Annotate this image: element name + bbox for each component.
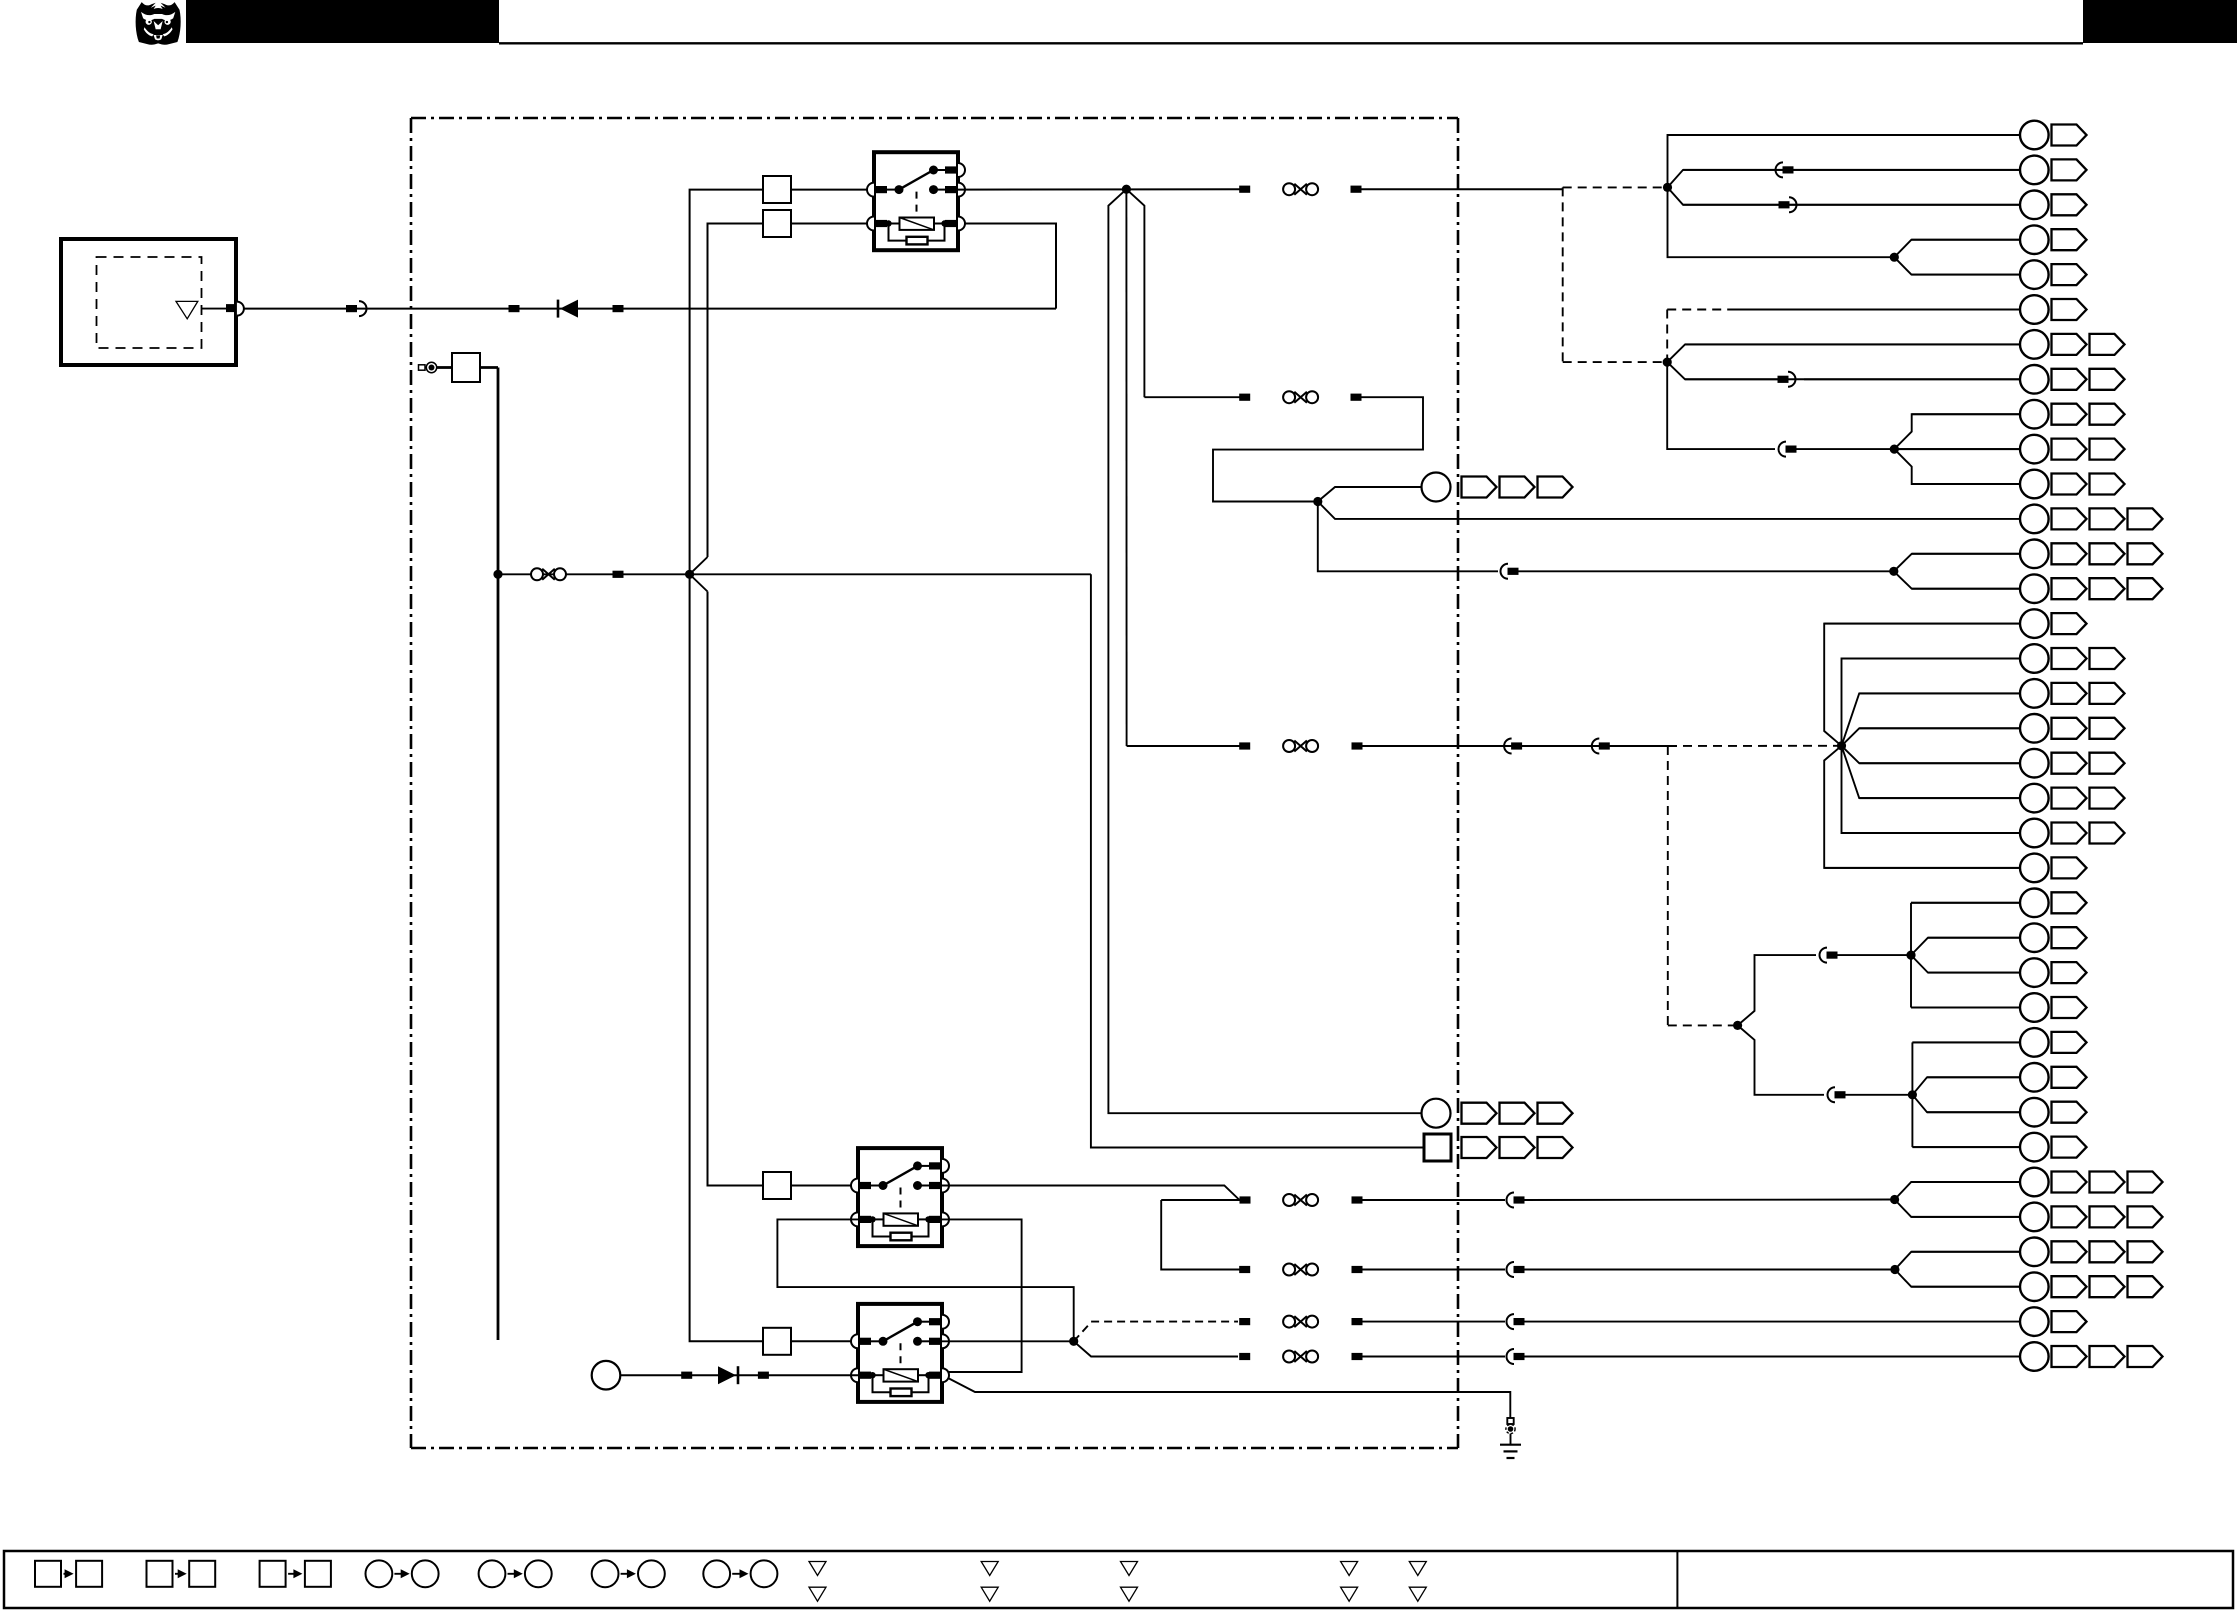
legend circle pair 3 — [592, 1560, 665, 1587]
connector row n=24 — [1928, 958, 2087, 987]
fan G — [1908, 1042, 2020, 1147]
fuse F4 — [763, 1328, 791, 1355]
module border right (dash-dot) — [1457, 118, 1460, 1448]
connector row n=10 — [1912, 470, 2125, 499]
relay K1 — [867, 152, 965, 250]
row7 connector — [1778, 372, 1796, 387]
component box (ignition switch) — [61, 239, 236, 365]
connector half-circle+square — [1504, 739, 1522, 754]
legend triangle pair 2 — [981, 1562, 998, 1602]
legend circle pair 4 — [703, 1560, 777, 1587]
row1 connector — [1776, 162, 1794, 177]
wire: apex to v-1126 (to splice row y746) — [1125, 189, 1127, 746]
row A to fan H — [1240, 1194, 1506, 1206]
wire: row y397 — [1144, 396, 1244, 398]
connector row n=33 — [1911, 1272, 2162, 1301]
connector row n=31 — [1911, 1203, 2162, 1232]
legend box — [4, 1551, 2233, 1608]
thick vertical x=498 — [497, 368, 500, 1341]
wire y571 to fan E — [1518, 570, 1894, 572]
connector square — [1239, 186, 1250, 193]
diode D1 (cathode left) — [558, 300, 578, 318]
connector row n=12 — [1912, 540, 2163, 569]
diode D2 (cathode right) — [718, 1366, 738, 1384]
connector square — [1351, 186, 1362, 193]
legend divider — [1676, 1551, 1678, 1608]
dashed wire to star fan — [1668, 745, 1842, 747]
wire: jog down to fan G feed — [1738, 1025, 1824, 1094]
row D to right — [1239, 1351, 1505, 1363]
dashed branch to row C — [1074, 1322, 1238, 1342]
connector row n=30 — [1911, 1168, 2162, 1197]
connector row n=17 — [1859, 714, 2124, 743]
junction apex dot — [1122, 185, 1131, 194]
wire: fan to connector row (circle) — [1318, 487, 1422, 502]
legend circle pair 1 — [366, 1560, 439, 1587]
wire: box to corner (power feed) — [243, 308, 1056, 310]
wire: vertical v2 top to fuse F2 — [708, 224, 764, 558]
relay K2 — [851, 1148, 949, 1246]
module border left (dash-dot) — [410, 118, 413, 1448]
connector row n=11 — [2020, 505, 2163, 534]
connector row n=6 — [1685, 330, 2125, 359]
connector square on feed — [509, 305, 520, 312]
fan E — [1889, 554, 2020, 589]
wire: F1 to relay K1 — [791, 189, 874, 191]
wire: vertical v1 top to fuse F1 — [690, 190, 763, 575]
wire y574 left segment — [498, 573, 1091, 575]
connector half-circle+square y571 — [1501, 564, 1519, 579]
wire: K2 coil loop to K3 junction — [777, 1219, 1073, 1341]
connector row n=25 — [1911, 993, 2087, 1022]
row2 connector — [1779, 197, 1797, 212]
connector half-circle+square — [1820, 948, 1838, 963]
module border top (dash-dot) — [411, 117, 1458, 120]
connector row: square+3 chevrons y1147 — [1424, 1134, 1573, 1161]
connector row n=34 — [2020, 1307, 2087, 1336]
small box with terminal — [419, 353, 499, 382]
wire: M to diode D2 — [620, 1374, 858, 1376]
connector row n=8 — [1912, 400, 2125, 429]
star fan — [1824, 624, 2020, 868]
connector half-circle+square — [1507, 1262, 1525, 1277]
wire: v1 down to fuse F4 — [690, 574, 763, 1341]
wire: fan down to y571 row — [1318, 502, 1498, 572]
fuse F1 — [763, 176, 791, 203]
splice (bowtie) — [1283, 183, 1318, 195]
fan D — [1663, 344, 2020, 449]
connector row n=9 — [1894, 435, 2124, 464]
connector half-circle+square — [1507, 1193, 1525, 1208]
fan C — [1890, 414, 2020, 484]
wire: feed corner up to relay K1 — [958, 224, 1056, 309]
connector row n=2 — [1683, 191, 2087, 220]
v2 jog through junction — [690, 557, 708, 592]
wire: F4 to relay K3 — [791, 1340, 858, 1342]
connector row n=26 — [1912, 1028, 2086, 1057]
connector row n=5 — [1730, 295, 2087, 324]
wire: jog up to fan F feed — [1738, 955, 1816, 1025]
connector row n=32 — [1911, 1238, 2162, 1267]
wire: F2 to relay K1 coil — [791, 223, 874, 225]
connector row n=35 — [2020, 1342, 2163, 1371]
dashed wire to lower fans — [1668, 1024, 1738, 1026]
wire: K3 output to junction — [942, 1340, 1074, 1342]
junction dot K3 out — [1069, 1337, 1078, 1346]
legend square pair 2 — [147, 1561, 216, 1587]
connector square — [681, 1372, 692, 1379]
dashed link fanB-fanD — [1563, 187, 1668, 362]
row B to fan I — [1239, 1264, 1505, 1276]
connector (inline) on feed — [346, 301, 367, 316]
Jaguar logo (growler badge) — [136, 2, 181, 45]
wire row C to row 34 — [1524, 1321, 2020, 1323]
connector row n=13 — [1912, 574, 2163, 603]
wire to connectors — [1362, 745, 1668, 747]
wire: v2 down to fuse F3 — [708, 592, 764, 1186]
inner dashed box — [97, 257, 202, 348]
legend circle pair 2 — [479, 1560, 552, 1587]
connector row n=16 — [1859, 679, 2124, 708]
circle M (sensor) — [592, 1361, 621, 1390]
dashed branch to row5 — [1667, 310, 1730, 363]
legend triangle pair 5 — [1409, 1562, 1426, 1602]
fan A — [1890, 240, 2020, 275]
connector row n=28 — [1927, 1098, 2087, 1127]
module border bottom (dash-dot) — [411, 1447, 1458, 1450]
fuse F2 — [763, 210, 791, 237]
wire: K2 coil-right down to K3 coil-right — [942, 1219, 1022, 1372]
connector square on feed 2 — [613, 305, 624, 312]
connector square — [1351, 394, 1362, 401]
wire: to fan F — [1837, 954, 1911, 956]
junction dot on x=498 — [493, 570, 502, 579]
wire: y574 corner down to square row — [1091, 574, 1424, 1147]
legend triangle pair 4 — [1341, 1562, 1358, 1602]
connector row n=3 — [1911, 225, 2086, 254]
connector row n=14 — [1824, 609, 2086, 638]
connector row n=20 — [1842, 819, 2125, 848]
connector row n=1 — [1683, 156, 2087, 185]
row C to right — [1239, 1316, 1505, 1328]
fan H — [1890, 1182, 2020, 1217]
wire row D to row 35 — [1524, 1356, 2020, 1358]
fanC input connector — [1779, 442, 1797, 457]
fan B — [1663, 135, 2020, 257]
header rule line — [499, 42, 2083, 44]
wire: K1 output to splice — [958, 188, 1245, 190]
connector square — [1352, 742, 1363, 749]
wire: to dashed section — [1361, 188, 1563, 190]
fuse F3 — [763, 1172, 791, 1199]
wire: K3 coil to ground run — [948, 1378, 1510, 1418]
connector square on y574 — [613, 571, 624, 578]
fan junction dot (mid) — [1313, 497, 1322, 506]
connector row: circle+3 chevrons y1113 — [1422, 1099, 1573, 1128]
ground symbol — [1500, 1418, 1521, 1458]
dashed wire to fan B — [1563, 186, 1668, 188]
connector square — [1239, 394, 1250, 401]
junction dot y574/verticals — [685, 570, 694, 579]
wire: apex to v-1108 (to connector row) — [1108, 189, 1421, 1113]
wire: rowA-rowB link — [1161, 1200, 1245, 1270]
legend triangle pair 3 — [1121, 1562, 1138, 1602]
connector row n=4 — [1911, 260, 2086, 289]
legend square pair 3 — [260, 1561, 331, 1587]
fan I — [1890, 1252, 2020, 1287]
wire: to fan G — [1845, 1094, 1912, 1096]
junction dot (lower fans feed) — [1733, 1021, 1742, 1030]
connector square — [1239, 742, 1250, 749]
connector row: circle+3 chevrons y487 — [1422, 473, 1573, 502]
connector row n=0 — [1668, 121, 2087, 150]
header right black box — [2083, 0, 2237, 43]
wire: zigzag to fan — [1213, 397, 1423, 501]
triangle symbol (down arrow) — [176, 301, 198, 318]
connector row n=29 — [1912, 1133, 2086, 1162]
connector row n=7 — [1685, 365, 2125, 394]
wire — [1524, 1199, 1895, 1202]
connector half-circle+square — [1592, 739, 1610, 754]
wire: fan to row 11 (long) — [1318, 502, 2020, 519]
wire — [1524, 1269, 1895, 1271]
solid branch to row D — [1074, 1341, 1238, 1356]
connector row n=23 — [1928, 923, 2087, 952]
legend triangle pair 1 — [809, 1562, 826, 1602]
relay K3 — [851, 1304, 949, 1402]
connector square — [758, 1372, 769, 1379]
wire: K2 output to row A — [942, 1186, 1240, 1201]
connector row n=18 — [1859, 749, 2124, 778]
wire: apex to v-1144 (to row y397) — [1126, 189, 1144, 397]
connector half-circle+square — [1828, 1087, 1846, 1102]
connector row n=19 — [1859, 784, 2124, 813]
connector half-circle+square — [1507, 1314, 1525, 1329]
fan F — [1906, 903, 2020, 1008]
header title bar (black) — [186, 0, 499, 43]
splice (bowtie) — [1283, 391, 1318, 403]
connector row n=27 — [1927, 1063, 2087, 1092]
connector row n=22 — [1911, 889, 2087, 918]
splice (bowtie) — [1283, 740, 1318, 752]
wire: F3 to relay K2 — [791, 1185, 858, 1187]
dashed vertical x=1668 — [1667, 746, 1669, 1025]
legend square pair 1 — [35, 1561, 102, 1587]
box output pin — [202, 302, 244, 316]
wire: row y746 — [1127, 745, 1245, 747]
wire to fan C — [1796, 448, 1894, 450]
connector row n=21 — [1824, 854, 2086, 883]
connector half-circle+square — [1507, 1349, 1525, 1364]
splice (bowtie) on y574 — [531, 568, 566, 580]
connector row n=15 — [1842, 644, 2125, 673]
